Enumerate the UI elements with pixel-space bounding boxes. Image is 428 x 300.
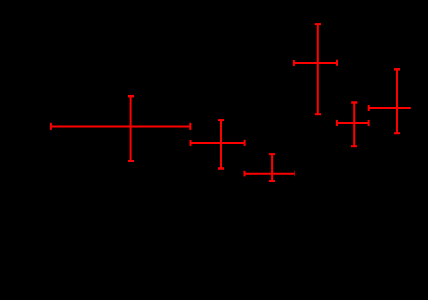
point 3 y-error top cap <box>269 153 275 155</box>
data point 4 error bars <box>294 24 337 114</box>
point 3 y-error line <box>271 154 273 181</box>
point 2 x-error left cap <box>190 140 192 146</box>
point 6 y-error top cap <box>394 68 400 71</box>
point 4 y-error bottom cap <box>315 113 321 115</box>
point 6 x-error line (right end clipped, no cap) <box>369 107 411 109</box>
point 2 x-error right cap <box>244 140 246 146</box>
point 1 y-error top cap <box>128 95 134 98</box>
data point 3 error bars <box>245 154 295 181</box>
point 3 y-error bottom cap <box>269 180 275 182</box>
point 6 y-error bottom cap <box>394 132 400 134</box>
point 3 x-error left cap <box>244 171 246 177</box>
point 2 y-error bottom cap <box>218 167 224 170</box>
point 2 x-error line <box>191 142 245 144</box>
point 4 x-error line <box>294 62 337 64</box>
point 5 y-error top cap <box>351 101 357 104</box>
point 1 x-error right cap <box>189 123 191 130</box>
point 5 x-error right cap <box>368 120 370 126</box>
data point 5 error bars <box>337 103 369 147</box>
point 2 y-error top cap <box>218 119 224 121</box>
point 1 y-error bottom cap <box>128 160 134 162</box>
point 4 x-error right cap <box>336 60 338 66</box>
data point 2 error bars <box>191 120 245 168</box>
point 5 y-error line <box>353 103 355 147</box>
point 1 y-error line <box>130 96 132 161</box>
point 2 y-error line <box>220 120 222 168</box>
point 3 x-error line <box>245 173 295 175</box>
point 5 y-error bottom cap <box>351 145 357 147</box>
point 6 y-error line <box>396 69 398 133</box>
point 3 x-error right cap (dim) <box>293 171 295 177</box>
point 1 x-error line <box>51 126 190 128</box>
data point 1 error bars <box>51 96 190 161</box>
point 5 x-error left cap <box>336 120 338 126</box>
point 4 x-error left cap <box>293 60 295 66</box>
point 4 y-error line <box>317 24 319 114</box>
point 4 y-error top cap <box>315 23 321 25</box>
point 5 x-error line <box>337 122 369 124</box>
point 1 x-error left cap <box>50 123 52 130</box>
point 6 x-error left cap <box>368 105 370 111</box>
data point 6 error bars <box>369 69 411 133</box>
